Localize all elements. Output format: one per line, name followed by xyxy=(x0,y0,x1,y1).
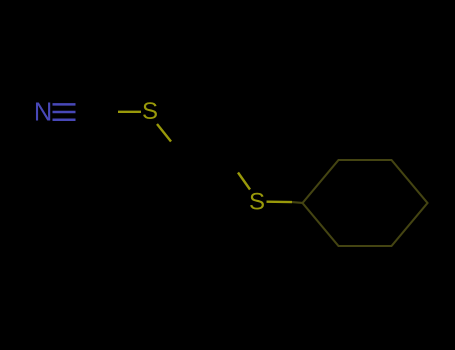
bond S2-ring sulfur half xyxy=(267,200,293,203)
bond C-S1 sulfur half xyxy=(118,111,141,113)
svg-text:S: S xyxy=(249,189,265,216)
cyclohexane ring xyxy=(303,160,428,246)
triple bond N#C line 3 xyxy=(53,119,76,122)
bond S2-ring carbon half xyxy=(292,201,303,204)
svg-text:S: S xyxy=(142,98,158,125)
triple bond N#C line 2 xyxy=(53,111,76,114)
bond CH2-S2 xyxy=(238,173,250,190)
svg-text:N: N xyxy=(34,99,52,127)
triple bond N#C line 1 xyxy=(53,103,76,106)
bond S1-CH2 xyxy=(157,124,171,142)
